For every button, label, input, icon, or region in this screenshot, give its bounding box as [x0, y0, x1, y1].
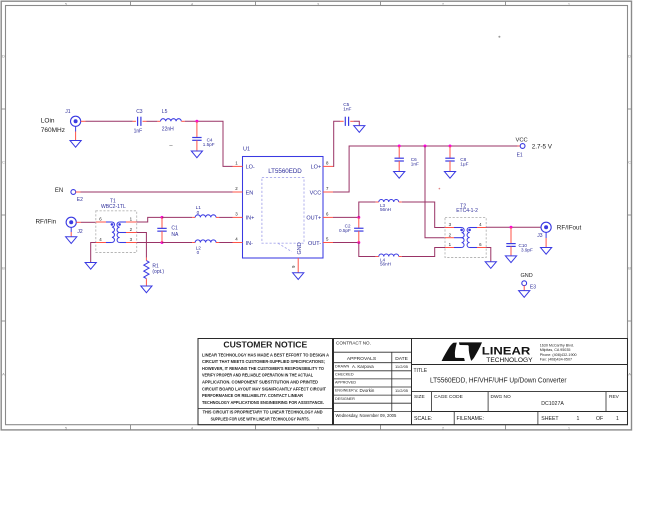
- svg-text:VERIFY PROPER AND RELIABLE OPE: VERIFY PROPER AND RELIABLE OPERATION IN …: [202, 373, 313, 378]
- svg-text:TECHNOLOGY: TECHNOLOGY: [486, 357, 533, 364]
- svg-text:RF/IFin: RF/IFin: [36, 218, 57, 225]
- svg-text:LO+: LO+: [311, 165, 322, 171]
- wire L5 to U1 pin 1: [181, 121, 232, 166]
- connector J2: [66, 217, 83, 235]
- capacitor C4 1.5pF: [192, 121, 215, 151]
- svg-text:C: C: [628, 160, 631, 165]
- wire T1 pin 1 to node IN+: [137, 217, 162, 222]
- wire U1 pin 6 to node OUT+: [333, 216, 359, 218]
- svg-text:NA: NA: [171, 232, 179, 238]
- svg-text:C1: C1: [171, 225, 178, 231]
- svg-text:APPROVED: APPROVED: [335, 380, 356, 384]
- svg-text:TITLE: TITLE: [414, 368, 428, 374]
- wire E2 to U1 pin 2: [76, 191, 233, 193]
- connector J1: [65, 109, 81, 127]
- svg-text:THIS CIRCUIT IS PROPRIETARY TO: THIS CIRCUIT IS PROPRIETARY TO LINEAR TE…: [203, 410, 324, 415]
- svg-text:C: C: [2, 160, 5, 165]
- junction C6 tap: [398, 145, 401, 148]
- svg-text:E3: E3: [530, 284, 536, 290]
- junction OUT- at C2: [357, 241, 360, 244]
- wire T2 pin 4 to J3: [486, 226, 541, 228]
- ground at R1: [141, 286, 152, 293]
- svg-text:0: 0: [197, 210, 200, 215]
- svg-text:2.7-5 V: 2.7-5 V: [532, 144, 553, 151]
- svg-text:SIZE: SIZE: [414, 394, 425, 400]
- svg-text:ETC4-1-2: ETC4-1-2: [456, 208, 478, 214]
- wire U1 pin 5 to node OUT-: [333, 242, 359, 244]
- svg-text:D: D: [628, 54, 631, 59]
- ground at C8: [444, 172, 455, 179]
- svg-text:1nF: 1nF: [343, 107, 351, 113]
- turret E1 VCC: [516, 137, 553, 158]
- svg-text:WBC2-1TL: WBC2-1TL: [101, 204, 126, 210]
- svg-text:ENGINEER: ENGINEER: [335, 389, 354, 393]
- svg-text:U1: U1: [243, 147, 250, 153]
- svg-text:L5: L5: [162, 109, 168, 115]
- ground at J1: [70, 141, 81, 148]
- wire T1 pin 2 to R1: [137, 233, 147, 258]
- inductor L1 0: [195, 205, 216, 217]
- svg-text:REV: REV: [609, 394, 620, 400]
- svg-text:DC1027A: DC1027A: [541, 401, 564, 407]
- wire J3 stub to ground: [545, 232, 547, 247]
- svg-text:Wednesday, November 09, 2005: Wednesday, November 09, 2005: [336, 413, 398, 418]
- wire E3 to ground: [523, 285, 525, 290]
- svg-text:Milpitas, CA 95035: Milpitas, CA 95035: [540, 348, 571, 352]
- inductor L2 0: [195, 240, 216, 255]
- turret E2: [71, 190, 83, 204]
- svg-text:SUPPLIED FOR USE WITH LINEAR T: SUPPLIED FOR USE WITH LINEAR TECHNOLOGY …: [211, 417, 310, 422]
- wire U1 pin 8 to C5: [333, 121, 340, 166]
- svg-text:OUT-: OUT-: [308, 241, 321, 247]
- svg-text:11/2/05: 11/2/05: [395, 388, 409, 393]
- capacitor C6 1nF: [395, 146, 420, 172]
- junction VCC tap to T2: [424, 145, 427, 148]
- junction C8 tap: [449, 145, 452, 148]
- svg-text:CHECKED: CHECKED: [335, 372, 354, 376]
- svg-text:GND: GND: [521, 273, 533, 279]
- svg-text:CIRCUIT THAT MEETS CUSTOMER-SU: CIRCUIT THAT MEETS CUSTOMER-SUPPLIED SPE…: [202, 359, 325, 364]
- junction C10 tap: [510, 226, 513, 229]
- junction C4 tap: [195, 120, 198, 123]
- svg-text:EN: EN: [55, 188, 63, 194]
- svg-text:V. Dvorkin: V. Dvorkin: [355, 388, 375, 393]
- svg-text:DRAWN: DRAWN: [335, 364, 349, 368]
- transformer T1 WBC2-1TL: [96, 199, 137, 253]
- svg-text:1: 1: [616, 416, 619, 422]
- svg-text:OF: OF: [596, 416, 603, 422]
- junction OUT+ at C2: [357, 216, 360, 219]
- svg-text:CAGE CODE: CAGE CODE: [434, 394, 463, 400]
- transformer T2 ETC4-1-2: [445, 203, 486, 257]
- svg-text:IN-: IN-: [246, 241, 254, 247]
- wire OUT- to L4: [359, 243, 376, 257]
- wire L1 to U1 pin 3: [216, 216, 233, 218]
- svg-text:J3: J3: [537, 233, 543, 239]
- svg-text:E1: E1: [517, 153, 523, 159]
- svg-text:HOWEVER, IT REMAINS THE CUSTOM: HOWEVER, IT REMAINS THE CUSTOMER'S RESPO…: [202, 366, 324, 371]
- svg-text:1.5pF: 1.5pF: [203, 142, 215, 147]
- svg-text:1μF: 1μF: [460, 162, 468, 167]
- ground at C4: [191, 151, 202, 158]
- svg-text:GND: GND: [297, 242, 303, 254]
- svg-text:A: A: [2, 372, 5, 377]
- svg-text:DATE: DATE: [395, 356, 408, 362]
- ground at T2 pin 6: [485, 262, 496, 269]
- wire T1 pin 4 to ground: [91, 243, 96, 263]
- ground at U1 pin 9: [293, 273, 304, 280]
- junction IN+ at C1: [161, 216, 164, 219]
- ground at T1 pin 4: [85, 263, 96, 270]
- svg-text:DWG NO: DWG NO: [491, 394, 512, 400]
- svg-text:SHEET: SHEET: [541, 416, 559, 422]
- svg-text:VCC: VCC: [516, 137, 528, 143]
- svg-text:C3: C3: [136, 109, 143, 115]
- capacitor C3: [134, 109, 143, 134]
- capacitor C5 1nF: [343, 102, 351, 126]
- wire C1 to L1: [162, 216, 195, 218]
- svg-text:11/2/05: 11/2/05: [395, 364, 409, 369]
- inductor L3 56nH: [379, 200, 399, 213]
- svg-text:APPROVALS: APPROVALS: [347, 356, 377, 362]
- inductor L4 56nH: [379, 254, 399, 267]
- svg-text:CUSTOMER NOTICE: CUSTOMER NOTICE: [223, 340, 307, 350]
- IC U1 LT5560EDD: [233, 147, 334, 273]
- svg-text:Fax: (408)434-0507: Fax: (408)434-0507: [540, 358, 572, 362]
- ground at C10: [505, 256, 516, 263]
- wire L2 to U1 pin 4: [216, 242, 233, 244]
- svg-text:D: D: [2, 54, 5, 59]
- wire VCC to T2 pin 2: [425, 146, 445, 238]
- svg-text:LO-: LO-: [246, 165, 255, 171]
- wire C5 to ground: [350, 121, 359, 125]
- svg-text:760MHz: 760MHz: [41, 127, 65, 134]
- svg-text:A: A: [628, 372, 631, 377]
- svg-text:SCALE:: SCALE:: [414, 416, 432, 422]
- turret E3: [522, 281, 536, 290]
- svg-text:J2: J2: [77, 229, 83, 235]
- ground at J3: [541, 248, 552, 255]
- ground at C6: [394, 172, 405, 179]
- svg-text:IN+: IN+: [246, 216, 255, 222]
- svg-text:CONTRACT NO.: CONTRACT NO.: [336, 341, 371, 346]
- svg-text:A. Karpova: A. Karpova: [352, 364, 374, 369]
- svg-text:3.9pF: 3.9pF: [521, 248, 533, 253]
- wire C3 to L5: [143, 120, 161, 122]
- svg-text:0: 0: [197, 250, 200, 255]
- wire U1 pin 7 to VCC rail and E1: [333, 146, 518, 192]
- wire L4 to T2 pin 1: [399, 256, 402, 258]
- svg-text:LT5560EDD, HF/VHF/UHF Up/Down: LT5560EDD, HF/VHF/UHF Up/Down Converter: [430, 377, 567, 384]
- svg-text:DESIGNER: DESIGNER: [335, 397, 355, 401]
- svg-text:1: 1: [577, 416, 580, 422]
- connector J3: [537, 222, 551, 239]
- svg-text:Phone: (408)432-1900: Phone: (408)432-1900: [540, 353, 577, 357]
- svg-text:E2: E2: [77, 197, 83, 203]
- wire L3 to T2 pin 3: [399, 201, 402, 203]
- wire C1 to L2: [162, 242, 195, 244]
- ground at C5: [354, 126, 365, 133]
- svg-text:LOin: LOin: [41, 117, 55, 124]
- svg-text:OUT+: OUT+: [306, 216, 321, 222]
- svg-text:56nH: 56nH: [380, 262, 391, 267]
- svg-text:RF/IFout: RF/IFout: [557, 224, 582, 231]
- svg-text:LT5560EDD: LT5560EDD: [268, 168, 302, 175]
- ground at E3: [519, 291, 530, 298]
- junction IN- at C1: [161, 241, 164, 244]
- capacitor C1 NA: [157, 217, 179, 242]
- svg-text:LINEAR TECHNOLOGY HAS MADE A B: LINEAR TECHNOLOGY HAS MADE A BEST EFFORT…: [202, 352, 330, 357]
- svg-text:0.5pF: 0.5pF: [339, 228, 351, 233]
- wire T1 pin 3 to node IN-: [137, 242, 162, 244]
- svg-text:1630 McCarthy Blvd.: 1630 McCarthy Blvd.: [540, 343, 574, 347]
- wire OUT+ to L3: [359, 202, 376, 217]
- wire J1 stub to ground: [75, 126, 77, 140]
- capacitor C2 0.5pF: [339, 217, 363, 242]
- svg-text:1nF: 1nF: [411, 162, 419, 167]
- svg-text:FILENAME:: FILENAME:: [457, 416, 484, 422]
- svg-text:B: B: [628, 266, 631, 271]
- svg-text:1nF: 1nF: [134, 129, 143, 135]
- svg-text:56nH: 56nH: [380, 207, 391, 212]
- svg-text:J1: J1: [65, 109, 71, 115]
- svg-text:APPLICATION. COMPONENT SUBSTI: APPLICATION. COMPONENT SUBSTITUTION AND …: [202, 380, 319, 385]
- wire J2 stub to ground: [70, 227, 72, 236]
- svg-text:EN: EN: [246, 190, 254, 196]
- svg-text:LINEAR: LINEAR: [482, 346, 531, 358]
- wire J1 to C3: [81, 120, 136, 122]
- svg-text:22nH: 22nH: [162, 127, 174, 133]
- svg-text:PERFORMANCE OR RELIABILITY. C: PERFORMANCE OR RELIABILITY. CONTACT LINE…: [202, 393, 304, 398]
- wire T2 pin 6 to ground: [486, 248, 491, 262]
- svg-text:VCC: VCC: [310, 190, 322, 196]
- capacitor C8 1uF: [445, 146, 468, 172]
- ground at J2: [66, 237, 77, 244]
- svg-text:(opt.): (opt.): [152, 269, 164, 275]
- svg-text:CIRCUIT BOARD LAYOUT MAY SIGNI: CIRCUIT BOARD LAYOUT MAY SIGNIFICANTLY A…: [202, 386, 326, 391]
- wire J2 to T1 pin 6: [76, 221, 96, 223]
- capacitor C10 3.9pF: [506, 227, 533, 256]
- svg-text:B: B: [2, 266, 5, 271]
- inductor L5 22nH: [161, 109, 182, 133]
- svg-text:TECHNOLOGY APPLICATIONS ENGINE: TECHNOLOGY APPLICATIONS ENGINEERING FOR …: [202, 400, 324, 405]
- resistor R1 (opt.): [144, 258, 165, 286]
